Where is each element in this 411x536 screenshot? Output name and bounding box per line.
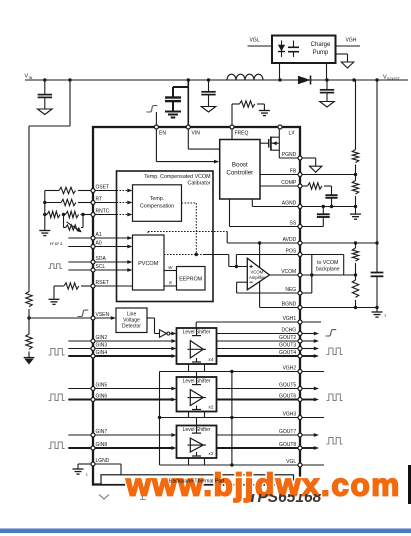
temp compensation block xyxy=(133,185,182,222)
junction AGND-gnd xyxy=(354,205,357,208)
junction C-COMP agnd xyxy=(330,205,333,208)
svg-text:GOUT3: GOUT3 xyxy=(279,343,296,349)
junction C2 tap xyxy=(207,78,210,81)
label GIN6 xyxy=(96,394,108,400)
glyph GOUT5/6 pulses xyxy=(327,394,343,401)
wire inverter to LS1 xyxy=(170,332,177,336)
junction FB xyxy=(354,173,357,176)
wire VGH1 xyxy=(196,322,321,328)
resistor R-RT xyxy=(45,199,93,205)
wire boost AGND stub xyxy=(252,199,300,207)
boost controller U1a xyxy=(220,140,260,200)
arrow EN into boost xyxy=(214,160,219,164)
label EEPROM xyxy=(179,277,202,283)
wire LGND xyxy=(78,463,121,465)
wire EN riser xyxy=(155,112,157,127)
junction right rail xyxy=(375,78,378,81)
svg-text:A0: A0 xyxy=(96,241,102,247)
label OSET xyxy=(96,185,110,191)
wire LS1 tab right xyxy=(204,364,206,372)
wire left-rail feed xyxy=(29,80,70,292)
label VSEN xyxy=(96,312,110,318)
backplane thermal pad xyxy=(101,475,294,485)
junction RNTC rail xyxy=(43,213,46,216)
label GOUT4 xyxy=(279,350,296,356)
wire AVDD line xyxy=(227,242,377,244)
glyph GIN7/8 pulses xyxy=(49,442,65,449)
label RSET xyxy=(96,280,109,286)
label L gnd xyxy=(86,473,88,477)
capacitor C-CP xyxy=(288,41,299,58)
label VIN xyxy=(25,74,33,81)
label VGH2 xyxy=(283,366,297,372)
wire NEG riser ext xyxy=(311,275,313,293)
wire amp supply top xyxy=(259,243,261,268)
resistor R-POS xyxy=(352,243,358,275)
label GOUT3 xyxy=(279,343,296,349)
svg-text:GIN3: GIN3 xyxy=(96,343,108,349)
svg-text:LGND: LGND xyxy=(96,458,110,464)
wire A1 ext xyxy=(68,237,93,239)
wire DAC down xyxy=(228,255,230,267)
wire NEG line xyxy=(237,292,312,294)
junction BGND rail xyxy=(375,306,378,309)
dashed trim line 1 xyxy=(182,203,197,255)
wire PGND stub xyxy=(300,158,316,166)
svg-text:PVCOM: PVCOM xyxy=(138,261,159,267)
wire PVCOM-EEPROM W xyxy=(164,270,177,272)
level shifter LS3 xyxy=(177,426,217,459)
label to VCOM backplane xyxy=(316,260,340,273)
capacitor C-AVDD xyxy=(371,273,384,308)
label Charge Pump xyxy=(311,42,331,56)
label LX xyxy=(289,131,296,137)
label VBOOST xyxy=(383,75,401,82)
label A1 xyxy=(96,232,102,238)
wire rail A xyxy=(159,372,161,466)
junction VBOOST cap node xyxy=(325,78,328,81)
wire GIN5 xyxy=(68,387,176,391)
glyph VSEN step xyxy=(78,310,89,316)
label VCOM Amplifier xyxy=(249,269,266,280)
PVCOM block xyxy=(133,235,165,290)
wire NEG riser int xyxy=(236,282,238,293)
label GIN8 xyxy=(96,442,108,448)
svg-text:AVDD: AVDD xyxy=(283,237,297,243)
label RT xyxy=(96,197,103,203)
resistor R-VSEN2 xyxy=(26,334,32,349)
svg-text:FREQ: FREQ xyxy=(235,131,249,137)
svg-text:Backplane Thermal Pad: Backplane Thermal Pad xyxy=(169,479,224,485)
wire GOUT5 xyxy=(217,387,320,391)
wire AGND gnd stub xyxy=(355,207,357,214)
wire FB rail mid xyxy=(355,165,357,181)
junction rail B VGH3 xyxy=(230,416,233,419)
label VGH3 xyxy=(283,412,297,418)
junction LX node xyxy=(278,78,281,81)
svg-text:AGND: AGND xyxy=(282,201,297,207)
wire GIN7 xyxy=(68,433,176,437)
svg-text:BGND: BGND xyxy=(282,302,297,308)
label GIN2 xyxy=(96,335,108,341)
wire POS line xyxy=(236,254,343,256)
bottom blue bar xyxy=(0,528,411,533)
black corner box xyxy=(408,465,411,504)
label EN xyxy=(159,131,166,137)
junction rail B VGL xyxy=(230,463,233,466)
svg-text:GIN5: GIN5 xyxy=(96,383,108,389)
ground C1 xyxy=(38,109,53,115)
svg-text:RSET: RSET xyxy=(96,280,109,286)
label NEG xyxy=(285,287,296,293)
ground CP xyxy=(341,62,353,68)
label W xyxy=(168,265,173,270)
wire thermal link xyxy=(120,464,122,475)
svg-text:GIN2: GIN2 xyxy=(96,335,108,341)
ground AGND xyxy=(350,214,361,219)
capacitor C-VINbyp (bold) xyxy=(165,98,181,112)
glyph GIN3/4 pulses xyxy=(49,349,65,356)
junction VCOM neg xyxy=(310,273,313,276)
charge pump U2 xyxy=(272,36,336,64)
wire source to PGND xyxy=(279,157,300,159)
junction RNTC mid-left xyxy=(62,213,65,216)
wire VGL row xyxy=(160,464,325,466)
svg-text:VCOM: VCOM xyxy=(250,269,263,274)
resistor R-FB1 xyxy=(352,150,358,163)
resistor R-FB2 xyxy=(352,181,358,195)
faint mark chevron xyxy=(99,495,146,500)
label POS xyxy=(286,249,297,255)
to VCOM backplane box xyxy=(312,255,344,276)
label SCL xyxy=(96,264,106,270)
label LGND xyxy=(96,458,110,464)
svg-text:VGL: VGL xyxy=(286,459,296,465)
wire SCL ext xyxy=(68,269,93,271)
resistor R-COMP xyxy=(300,183,331,189)
wire RT to tempcomp xyxy=(93,201,133,205)
svg-text:VIN: VIN xyxy=(192,131,201,137)
wire CP to VBOOST xyxy=(326,63,328,80)
wire PVCOM-EEPROM R xyxy=(164,285,177,287)
wire LS2 tab left xyxy=(188,412,190,418)
svg-text:SS: SS xyxy=(290,221,297,227)
wire FB ext xyxy=(300,174,356,176)
label AGND xyxy=(282,201,297,207)
label BGND xyxy=(282,302,297,308)
svg-text:VGH: VGH xyxy=(346,38,357,44)
label gnd s xyxy=(385,314,387,318)
FB rail upper xyxy=(355,80,357,150)
resistor R-RNTC2 xyxy=(64,211,84,217)
thermistor NTC xyxy=(64,222,84,233)
calibrator block xyxy=(117,171,214,302)
svg-text:VGL: VGL xyxy=(250,38,260,44)
label A0 xyxy=(96,241,102,247)
wire GIN8 xyxy=(68,446,176,450)
wire RT rail xyxy=(44,203,46,231)
wire LS2 tab right xyxy=(204,412,206,418)
svg-text:RNTC: RNTC xyxy=(96,209,110,215)
wire VSEN inside xyxy=(93,316,116,320)
glyph GOUT7/8 pulses xyxy=(327,438,343,445)
junction VSEN xyxy=(27,316,30,319)
junction rail A VGH3 xyxy=(158,416,161,419)
glyph GOUT2-4 pulses xyxy=(327,348,343,355)
svg-text:GIN8: GIN8 xyxy=(96,442,108,448)
minus sign xyxy=(249,281,253,283)
label GOUT7 xyxy=(279,429,296,435)
svg-text:OSET: OSET xyxy=(96,185,110,191)
svg-text:backplane: backplane xyxy=(316,267,340,273)
label RNTC xyxy=(96,209,110,215)
wire VIN riser xyxy=(187,80,189,127)
IC pin circles xyxy=(91,125,302,467)
svg-text:POS: POS xyxy=(286,249,297,255)
diode D-CP xyxy=(278,41,285,58)
transistor Q1 xyxy=(260,137,279,151)
wire VGH3 row xyxy=(160,417,325,419)
wire LS3 top feed xyxy=(196,418,198,426)
wire BGND gnd stub xyxy=(376,308,378,312)
line voltage detector block xyxy=(116,308,147,333)
diode D1 xyxy=(297,76,313,85)
wire VIN bypass branch xyxy=(173,87,188,98)
wire VIN input rail xyxy=(25,79,408,81)
ground C2 xyxy=(201,107,216,113)
label FREQ xyxy=(235,131,249,137)
label Boost Controller xyxy=(226,162,253,177)
wire EN to boost xyxy=(156,127,216,162)
glyph GIN5/6 pulses xyxy=(49,394,65,401)
label VIN pin xyxy=(192,131,201,137)
svg-text:x4: x4 xyxy=(208,357,213,363)
wire GOUT7 xyxy=(217,433,320,437)
resistor R-NEG xyxy=(352,275,358,308)
wire A0 ext xyxy=(68,246,93,248)
label GIN4 xyxy=(96,350,108,356)
svg-text:s: s xyxy=(385,314,387,318)
wire right rail xyxy=(376,80,378,272)
label GOUT6 xyxy=(279,394,296,400)
wire RSET gnd arm xyxy=(53,286,55,299)
IC TPS65168 outline xyxy=(93,127,300,485)
watermark xyxy=(125,467,401,503)
wire VGL stub xyxy=(248,45,273,47)
label SS xyxy=(290,221,297,227)
wire OSET corner xyxy=(44,191,46,203)
label COMP xyxy=(281,180,297,186)
wire RSET to PVCOM xyxy=(93,285,133,287)
wire SDA to PVCOM xyxy=(93,260,133,264)
wire boost to COMP xyxy=(260,185,300,187)
wire VSEN gnd stub xyxy=(28,352,30,359)
wire BGND line xyxy=(260,307,377,309)
wire detector out xyxy=(147,318,160,334)
inverter U3 xyxy=(160,330,170,337)
ground LGND xyxy=(73,469,84,474)
capacitor C2 xyxy=(201,80,215,107)
label PGND xyxy=(282,152,297,158)
wire VGH stub xyxy=(336,45,361,47)
wire rail B xyxy=(231,372,233,466)
label VCOM xyxy=(281,269,296,275)
label GIN3 xyxy=(96,343,108,349)
svg-text:GOUT5: GOUT5 xyxy=(279,383,296,389)
wire GOUT2 xyxy=(217,339,320,343)
junction left-rail tap xyxy=(68,78,71,81)
capacitor C-SS xyxy=(317,207,330,227)
svg-text:Compensation: Compensation xyxy=(140,204,174,210)
wire A1 to PVCOM xyxy=(93,236,133,240)
wire OSET to tempcomp xyxy=(93,189,133,193)
label detector xyxy=(122,311,141,329)
capacitor C1 xyxy=(38,80,52,109)
resistor R-OSET xyxy=(45,187,93,193)
label H or L xyxy=(50,241,63,247)
label DCHG xyxy=(281,328,296,334)
wire boost SS stub xyxy=(230,199,301,227)
svg-text:BOOST: BOOST xyxy=(387,77,400,81)
wire LS1 tab left xyxy=(188,364,190,372)
svg-text:to VCOM: to VCOM xyxy=(317,260,338,266)
ground RSET xyxy=(49,299,60,304)
svg-text:PGND: PGND xyxy=(282,152,297,158)
svg-text:FB: FB xyxy=(290,169,297,175)
wire GOUT6 xyxy=(217,398,320,402)
wire DCHG xyxy=(217,332,320,336)
wire GIN3 xyxy=(68,347,176,351)
wire POS riser xyxy=(235,255,237,267)
wire CP gnd arm xyxy=(336,54,348,62)
wire SDA ext xyxy=(68,261,93,263)
svg-text:L: L xyxy=(86,473,88,477)
svg-text:GOUT6: GOUT6 xyxy=(279,394,296,400)
label R xyxy=(169,281,173,286)
wire A0 to PVCOM xyxy=(93,245,133,249)
label GOUT8 xyxy=(279,442,296,448)
EEPROM block xyxy=(177,267,206,291)
wire GOUT4 xyxy=(217,354,320,358)
op-amp VCOM amplifier xyxy=(247,258,269,290)
label thermal pad xyxy=(169,479,224,485)
wire VCOM line xyxy=(270,274,356,276)
svg-text:x2: x2 xyxy=(208,405,213,411)
wire FREQ to boost xyxy=(231,127,233,140)
wire RNTC to pin xyxy=(83,214,93,216)
wire FB rail low xyxy=(355,196,357,207)
inductor L1 xyxy=(227,74,263,80)
svg-text:A1: A1 xyxy=(96,232,102,238)
junction VIN pin riser xyxy=(187,78,190,81)
svg-text:RT: RT xyxy=(96,197,103,203)
junction rail B VGH2 xyxy=(230,370,233,373)
svg-text:Charge: Charge xyxy=(311,42,331,48)
svg-text:Pump: Pump xyxy=(313,50,329,56)
part number italic xyxy=(248,489,322,506)
svg-text:Temp.: Temp. xyxy=(150,196,164,202)
wire LS2 top feed xyxy=(196,372,198,378)
wire RNTC to tempcomp xyxy=(93,213,133,217)
ground VSEN rail xyxy=(24,358,35,365)
ground C-VINbyp xyxy=(165,112,181,118)
svg-text:Calibrator: Calibrator xyxy=(188,180,211,186)
svg-text:GIN6: GIN6 xyxy=(96,394,108,400)
svg-text:SDA: SDA xyxy=(96,256,107,262)
wire boost to FB xyxy=(260,174,300,176)
resistor R-VSEN1 xyxy=(26,292,32,307)
svg-text:Temp. Compensated VCOM: Temp. Compensated VCOM xyxy=(144,174,210,180)
svg-text:GOUT8: GOUT8 xyxy=(279,442,296,448)
junction input cap C1 xyxy=(43,78,46,81)
svg-text:x2: x2 xyxy=(208,451,213,457)
svg-text:Controller: Controller xyxy=(226,170,253,177)
label Temp Compensation xyxy=(140,196,174,210)
glyph EN step xyxy=(147,106,158,112)
svg-text:EN: EN xyxy=(159,131,166,137)
wire GOUT8 xyxy=(217,446,320,450)
label GOUT5 xyxy=(279,383,296,389)
junction POS plus xyxy=(235,265,238,268)
label PVCOM xyxy=(138,261,159,267)
svg-text:NEG: NEG xyxy=(285,287,296,293)
ground BGND xyxy=(372,312,383,317)
plus sign xyxy=(249,265,253,268)
svg-text:GOUT7: GOUT7 xyxy=(279,429,296,435)
svg-text:VGH1: VGH1 xyxy=(283,316,297,322)
ground C-OUT xyxy=(320,102,335,108)
wire amp plus feed xyxy=(229,266,248,268)
junction FB divider rail xyxy=(352,78,355,81)
label SDA xyxy=(96,256,107,262)
junction RT rail xyxy=(43,201,46,204)
capacitor C-OUT xyxy=(320,80,334,102)
label VGL xyxy=(250,38,260,44)
wire SCL to PVCOM xyxy=(93,268,133,272)
label calibrator title xyxy=(144,174,210,187)
svg-text:VSEN: VSEN xyxy=(96,312,110,318)
wire LS3 tab right xyxy=(204,458,206,465)
junction RNTC mid-right xyxy=(81,213,84,216)
dashed trim line 2 xyxy=(148,232,227,244)
level shifter LS1 xyxy=(177,328,217,364)
wire GIN6 xyxy=(68,398,176,402)
wire VSEN rail xyxy=(28,309,30,334)
wire GOUT3 xyxy=(217,347,320,351)
svg-text:SCL: SCL xyxy=(96,264,106,270)
label VGL pin xyxy=(286,459,296,465)
wire VGH2 row xyxy=(160,371,325,373)
svg-text:COMP: COMP xyxy=(281,180,297,186)
glyph SDA/SCL pulses xyxy=(49,264,62,269)
label VGH1 xyxy=(283,316,297,322)
junction AVDD divider xyxy=(354,241,357,244)
svg-text:LX: LX xyxy=(289,131,296,137)
wire GIN2 xyxy=(68,339,176,343)
svg-text:IN: IN xyxy=(29,76,33,80)
svg-text:Detector: Detector xyxy=(122,323,141,329)
wire LS3 tab left xyxy=(188,458,190,465)
svg-text:Amplifier: Amplifier xyxy=(249,275,266,280)
wire VSEN ext xyxy=(29,317,93,319)
dashed trim line 3 xyxy=(164,254,229,256)
label GIN5 xyxy=(96,383,108,389)
junction trim xyxy=(195,253,198,256)
wire GIN4 xyxy=(68,354,176,358)
wire AGND ext xyxy=(300,206,356,208)
junction VCOM divider xyxy=(354,273,357,276)
svg-text:VCOM: VCOM xyxy=(281,269,296,275)
